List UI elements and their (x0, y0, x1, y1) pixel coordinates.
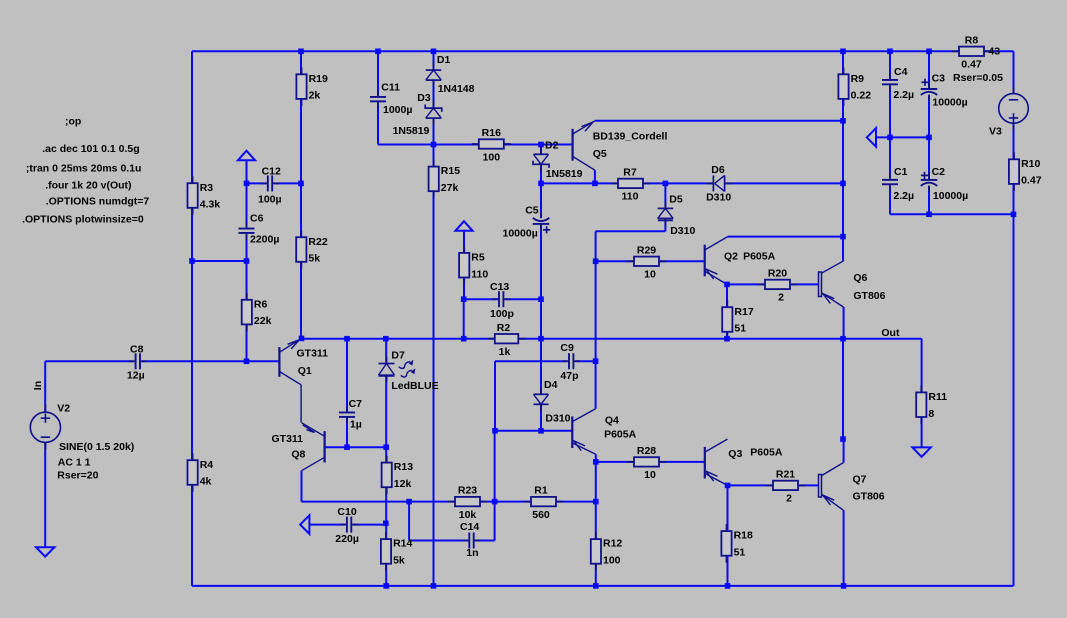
wire D1 to D3 (433, 80, 435, 108)
wire rail to D1 (433, 51, 435, 70)
wire R21 tee to R18 (727, 485, 729, 531)
node top rail R19 (298, 49, 304, 55)
svg-text:R9: R9 (851, 73, 865, 85)
svg-text:C9: C9 (560, 342, 574, 354)
wire C14 tee down (408, 502, 410, 541)
wire D5 corner to R29 tee (595, 231, 597, 261)
wire Q2 collector (728, 236, 843, 238)
wire V2 to ground (44, 442, 46, 547)
node bottom rail R14 (383, 583, 389, 589)
svg-text:4.3k: 4.3k (200, 199, 221, 211)
wire D7 to Q8 base wire (385, 376, 387, 447)
voltage source V2 (30, 405, 60, 451)
svg-text:43: 43 (988, 46, 1000, 58)
svg-text:C11: C11 (381, 82, 400, 94)
wire Out tee to Q3 collector tee (842, 339, 844, 439)
wire D5 bottom stub (664, 221, 666, 231)
node C10 tee (383, 521, 389, 527)
svg-text:1N5819: 1N5819 (393, 125, 430, 137)
svg-text:110: 110 (471, 268, 488, 280)
transistor Q3 (705, 439, 728, 485)
svg-text:R16: R16 (482, 127, 501, 139)
resistor R22 (296, 230, 328, 269)
svg-text:Q7: Q7 (853, 474, 867, 486)
wire D5 top stub (664, 183, 666, 206)
svg-text:Q6: Q6 (853, 272, 867, 284)
wire R7 to D5 tee (643, 182, 665, 184)
led D7 squiggle arrows (399, 361, 415, 377)
svg-text:0.47: 0.47 (961, 59, 982, 71)
svg-text:R15: R15 (441, 165, 460, 177)
svg-text:R12: R12 (603, 538, 622, 550)
ground under R11 (912, 447, 930, 456)
svg-text:51: 51 (734, 323, 746, 335)
transistor Q6 (819, 261, 844, 307)
wire Q8 to C14 tee (302, 501, 456, 503)
wire C11 top (377, 51, 379, 95)
svg-text:2.2µ: 2.2µ (893, 89, 914, 101)
node top rail D1 (431, 49, 437, 55)
node bottom rail R12 (593, 583, 599, 589)
wire arrow to C12 tee (246, 160, 248, 181)
wire D4 to Q4 base wire (540, 405, 542, 432)
svg-text:R22: R22 (308, 236, 327, 248)
svg-text:R7: R7 (623, 167, 637, 179)
node Q3 emitter tee (725, 483, 731, 489)
node top rail R9 (840, 49, 846, 55)
svg-text:1n: 1n (466, 547, 478, 559)
capacitor C12 (261, 175, 279, 191)
wire D2 to R7 wire (540, 166, 542, 184)
power arrow above C12 (238, 151, 255, 161)
wire R5 to C13 tee (463, 277, 465, 299)
svg-text:2.2µ: 2.2µ (893, 190, 914, 202)
svg-text:C6: C6 (250, 212, 264, 224)
resistor R9 (838, 67, 871, 106)
diode D2 (533, 147, 549, 171)
svg-text:GT311: GT311 (297, 347, 329, 359)
supply arrow left of C4 (867, 128, 876, 147)
led D7 anode bar (379, 375, 395, 377)
diode D1 (426, 63, 442, 87)
svg-text:100p: 100p (490, 308, 514, 320)
svg-text:4k: 4k (200, 476, 212, 488)
svg-text:V2: V2 (57, 403, 70, 415)
node D4 bottom tee (538, 428, 544, 434)
resistor R16 (472, 127, 511, 163)
svg-text:C12: C12 (262, 166, 281, 178)
svg-text:D7: D7 (391, 349, 405, 361)
svg-text:C3: C3 (932, 73, 946, 85)
svg-text:Q2: Q2 (724, 250, 738, 262)
wire R17 to Out wire (726, 331, 728, 338)
node C2 bottom tee (926, 212, 932, 218)
capacitor C5 (533, 212, 550, 233)
wire supply arrow to C4 line (876, 136, 929, 138)
resistor R4 (188, 453, 214, 492)
svg-text:D310: D310 (670, 225, 695, 237)
resistor R15 (429, 160, 461, 199)
power arrow above R5 (455, 221, 472, 231)
svg-text:R28: R28 (637, 445, 656, 457)
wire R3 to R4 (191, 208, 193, 461)
svg-text:D6: D6 (711, 164, 725, 176)
wire C9 loop vertical (494, 361, 496, 431)
transistor Q4 (572, 409, 596, 455)
svg-text:D5: D5 (669, 193, 683, 205)
svg-text:R3: R3 (200, 182, 214, 194)
node bottom rail R18 (725, 583, 731, 589)
svg-text:10000µ: 10000µ (503, 228, 538, 240)
wire Q4 emitter stub (595, 454, 597, 462)
svg-text:1000µ: 1000µ (383, 104, 412, 116)
resistor R28 (627, 445, 666, 481)
wire C9 right segment (576, 360, 596, 362)
svg-text:100µ: 100µ (258, 193, 282, 205)
node C12 left tee (244, 181, 250, 187)
resistor R7 (611, 167, 650, 203)
svg-text:P605A: P605A (604, 429, 637, 441)
node C9 loop tee (492, 428, 498, 434)
svg-text:;tran 0 25ms 20ms 0.1u: ;tran 0 25ms 20ms 0.1u (26, 163, 142, 175)
wire R19 to R22 (300, 99, 302, 237)
resistor R19 (296, 67, 328, 106)
svg-text:5k: 5k (393, 555, 405, 567)
wire R28 left (596, 461, 634, 463)
svg-text:C7: C7 (349, 398, 363, 410)
node C7 top tee (344, 336, 350, 342)
node R5 C13 tee (461, 296, 467, 302)
node Q1 collector (299, 336, 305, 342)
led D7 (379, 357, 395, 383)
svg-text:22k: 22k (254, 315, 272, 327)
node Q5 collector R9 line (840, 118, 846, 124)
wire right vertical top (to V3) (1013, 51, 1015, 94)
wire R29 tee down to Q4 collector (595, 261, 597, 409)
wire Q3 collector tee to Q7 (843, 439, 845, 462)
svg-text:SINE(0 1.5 20k): SINE(0 1.5 20k) (59, 441, 134, 453)
wire C9 left segment (495, 360, 567, 362)
voltage source V3 (999, 87, 1029, 130)
node C14 left tee (406, 499, 412, 505)
wire D7 tee to R13 (385, 447, 387, 462)
resistor R11 (916, 385, 947, 424)
svg-text:Q8: Q8 (291, 448, 305, 460)
svg-text:R10: R10 (1021, 158, 1040, 170)
svg-text:47p: 47p (560, 370, 578, 382)
svg-text:LedBLUE: LedBLUE (391, 380, 438, 392)
wire Q6 emitter to Out wire (843, 307, 845, 339)
svg-text:R17: R17 (734, 306, 753, 318)
svg-text:220µ: 220µ (335, 533, 359, 545)
svg-text:BD139_Cordell: BD139_Cordell (593, 130, 668, 142)
svg-text:10: 10 (644, 469, 656, 481)
svg-text:10k: 10k (459, 509, 477, 521)
node D3 R16 tee (431, 142, 437, 148)
wire C7 bottom (346, 417, 348, 447)
wire R12 to bottom rail (595, 564, 597, 586)
diode D3 (425, 101, 442, 125)
node R10 bottom tee (1011, 212, 1017, 218)
wire left rail top (to R3) (191, 51, 193, 183)
wire In corner to V2 (44, 361, 46, 412)
wire R16 to D2 tee (504, 144, 541, 146)
wire D2 tee to Q5 base (541, 144, 573, 146)
wire C1 corner to C2 (890, 213, 929, 215)
wire R17 tee to Out tee (727, 338, 843, 340)
ground under V2 (36, 547, 54, 556)
svg-text:C13: C13 (490, 281, 509, 293)
node R6 C8 tee (244, 359, 250, 365)
wire R6 to C8 wire (246, 324, 248, 362)
svg-text:In: In (32, 381, 44, 390)
capacitor C9 (562, 353, 580, 369)
svg-text:5k: 5k (308, 253, 320, 265)
svg-text:Q5: Q5 (593, 148, 607, 160)
wire C7 top (346, 339, 348, 413)
wire C8 to Q1 base (142, 360, 279, 362)
capacitor C10 (340, 517, 358, 533)
transistor Q2 (705, 237, 728, 285)
wire D3 to R16 wire (433, 119, 435, 145)
svg-text:12k: 12k (394, 478, 412, 490)
capacitor C14 (463, 533, 481, 549)
wire V2 to C8 (45, 360, 133, 362)
svg-text:R29: R29 (637, 244, 656, 256)
capacitor C8 (129, 353, 147, 369)
resistor R1 (524, 485, 563, 521)
svg-text:110: 110 (622, 191, 639, 203)
node Out tee (840, 336, 846, 342)
resistor R20 (758, 268, 797, 304)
svg-text:.ac dec 101 0.1 0.5g: .ac dec 101 0.1 0.5g (42, 143, 139, 155)
svg-text:R13: R13 (394, 461, 413, 473)
node top rail C11 (375, 49, 381, 55)
svg-text:C10: C10 (337, 506, 356, 518)
wire bottom rail (192, 585, 1014, 587)
capacitor C13 (492, 291, 510, 307)
node C4 arrow tee (887, 135, 893, 141)
svg-text:Rser=20: Rser=20 (57, 470, 98, 482)
svg-text:C2: C2 (932, 166, 946, 178)
wire R3 tee to R6 (246, 261, 248, 300)
svg-text:R1: R1 (534, 485, 548, 497)
svg-text:R19: R19 (309, 73, 328, 85)
wire R7 wire to C5 (540, 183, 542, 217)
node D7 R13 tee (383, 444, 389, 450)
node bottom rail Q7 (841, 583, 847, 589)
node Q2 emitter tee (724, 282, 730, 288)
svg-text:GT806: GT806 (853, 290, 885, 302)
transistor Q7 (819, 463, 844, 511)
node R29 tee (593, 259, 599, 265)
svg-text:2200µ: 2200µ (250, 233, 279, 245)
svg-text:R23: R23 (458, 485, 477, 497)
wire C12 tee to C6 (246, 181, 248, 226)
wire R22 to Q1 junction (300, 262, 302, 339)
port arrow left of C10 (300, 515, 309, 534)
wire loop tee to D4 tee (495, 430, 541, 432)
svg-text:1N4148: 1N4148 (438, 83, 475, 95)
svg-text:.OPTIONS plotwinsize=0: .OPTIONS plotwinsize=0 (22, 213, 144, 225)
svg-text:P605A: P605A (743, 250, 776, 262)
wire C2 to R10 tee (929, 213, 1014, 215)
node Q4 emitter tee (593, 459, 599, 465)
node R1 right tee (593, 499, 599, 505)
wire D5 corner horizontal (596, 230, 666, 232)
svg-text:V3: V3 (989, 126, 1002, 138)
node C7 bottom tee (344, 444, 350, 450)
resistor R5 (459, 246, 488, 285)
svg-text:R2: R2 (497, 322, 511, 334)
wire Q2 emitter to R20 (727, 283, 765, 285)
svg-text:R4: R4 (200, 459, 214, 471)
svg-text:R18: R18 (734, 530, 753, 542)
wire D6 to R9 line (725, 182, 843, 184)
wire C12 left (247, 182, 266, 184)
wire C2 bottom (928, 186, 930, 214)
wire R1 to R12 line (556, 501, 596, 503)
wire R29 left (596, 260, 634, 262)
svg-text:10000µ: 10000µ (933, 190, 968, 202)
node C12 right tee (298, 181, 304, 187)
capacitor C1 (882, 173, 898, 191)
svg-text:R8: R8 (965, 34, 979, 46)
node R17 bottom tee (724, 336, 730, 342)
wire C4 to C1 (889, 86, 891, 178)
svg-text:R6: R6 (254, 298, 268, 310)
svg-text:Q1: Q1 (298, 365, 312, 377)
wire R4 to bottom rail (191, 485, 193, 586)
svg-text:C4: C4 (894, 66, 908, 78)
wire D4 tee to Q4 base (541, 430, 572, 432)
svg-text:P605A: P605A (750, 446, 783, 458)
wire D5 tee to D6 (665, 182, 713, 184)
svg-text:R20: R20 (768, 268, 787, 280)
svg-text:D3: D3 (417, 92, 431, 104)
svg-text:2k: 2k (309, 90, 321, 102)
wire R23 to R1 (480, 501, 531, 503)
wire C12 right (274, 182, 301, 184)
wire R9 to Q6 collector (842, 99, 844, 261)
transistor Q1 (279, 338, 301, 422)
wire Out corner down to R11 (921, 339, 923, 393)
svg-text:0.22: 0.22 (851, 90, 872, 102)
wire top rail right of R8 (984, 50, 1014, 52)
svg-text:R21: R21 (776, 469, 795, 481)
svg-text:C8: C8 (130, 344, 144, 356)
wire Q1 collector rail a (302, 338, 495, 340)
wire V3 to R10 (1013, 123, 1015, 160)
wire Q3 emitter to R21 (728, 484, 774, 486)
svg-text:Q4: Q4 (605, 415, 619, 427)
resistor R6 (242, 293, 272, 332)
resistor R8 (952, 34, 991, 70)
svg-text:GT311: GT311 (272, 433, 304, 445)
wire D2 tee to Q5 emitter (541, 182, 618, 184)
capacitor C6 (239, 222, 255, 240)
wire C14 right (476, 540, 495, 542)
wire C14 left (409, 540, 467, 542)
wire Q5 collector to R9 line (595, 120, 843, 122)
svg-text:R11: R11 (928, 391, 947, 403)
wire D3 line to R15 (433, 145, 435, 167)
wire Q2 emitter to R17 (726, 284, 728, 307)
svg-text:1µ: 1µ (350, 418, 362, 430)
node R2 left tee (461, 336, 467, 342)
node top rail C4 (887, 49, 893, 55)
node Q2 collector tee (840, 234, 846, 240)
capacitor C3 (921, 79, 938, 101)
svg-text:51: 51 (734, 547, 746, 559)
node top rail C3 (926, 49, 932, 55)
svg-text:1N5819: 1N5819 (546, 168, 583, 180)
wire Q8 collector drop (301, 471, 303, 502)
diode D6 (707, 175, 733, 191)
wire R15 to bottom rail (433, 192, 435, 586)
wire R14 to bottom rail (385, 563, 387, 586)
wire C10 to R14 line (353, 524, 385, 526)
svg-text:D2: D2 (545, 140, 559, 152)
wire R13 to R14 (385, 486, 387, 539)
node D2 top (538, 142, 544, 148)
svg-text:8: 8 (928, 408, 934, 420)
wire R28 to Q3 base (659, 461, 705, 463)
node D2 bottom (538, 181, 544, 187)
node D7 top tee (383, 336, 389, 342)
wire R10 to bottom right corner (1013, 183, 1015, 586)
svg-text:C14: C14 (460, 521, 479, 533)
resistor R10 (1009, 152, 1042, 191)
wire C13 tee to R2 wire (540, 299, 542, 339)
svg-text:.OPTIONS numdgt=7: .OPTIONS numdgt=7 (46, 195, 150, 207)
wire rail to C4 (889, 51, 891, 78)
wire 4way to C14 corner (494, 502, 496, 541)
wire R3 to C6 branch (192, 260, 247, 262)
wire C11 bottom (377, 103, 379, 144)
svg-text:C1: C1 (894, 166, 908, 178)
node left rail R3 tee (189, 258, 195, 264)
svg-text:D310: D310 (545, 413, 570, 425)
resistor R23 (448, 485, 487, 521)
wire C13 tee down (463, 299, 465, 339)
resistor R21 (766, 469, 805, 505)
diode D5 (658, 201, 674, 225)
wire top rail left segment (192, 50, 959, 52)
svg-text:1k: 1k (499, 346, 511, 358)
svg-text:AC 1 1: AC 1 1 (58, 456, 91, 468)
svg-text:D1: D1 (437, 54, 451, 66)
resistor R29 (627, 244, 666, 280)
svg-text:Out: Out (881, 327, 900, 339)
svg-text:100: 100 (483, 151, 501, 163)
node C14 right 4way (492, 499, 498, 505)
wire R20 to Q6 base (790, 283, 819, 285)
svg-text:C5: C5 (525, 205, 539, 217)
wire rail to C3 (928, 51, 930, 88)
wire R18 to bottom rail (727, 556, 729, 586)
diode D5 anode bar (658, 219, 673, 221)
svg-text:D4: D4 (544, 379, 558, 391)
node R7 D5 tee (663, 181, 669, 187)
svg-text:;op: ;op (65, 116, 81, 128)
node Q5 emitter (592, 181, 598, 187)
wire R19 stub top (300, 51, 302, 74)
svg-text:100: 100 (603, 555, 621, 567)
svg-text:GT806: GT806 (853, 490, 885, 502)
svg-text:560: 560 (532, 509, 550, 521)
wire Q8 base to C7 tee (325, 446, 387, 448)
